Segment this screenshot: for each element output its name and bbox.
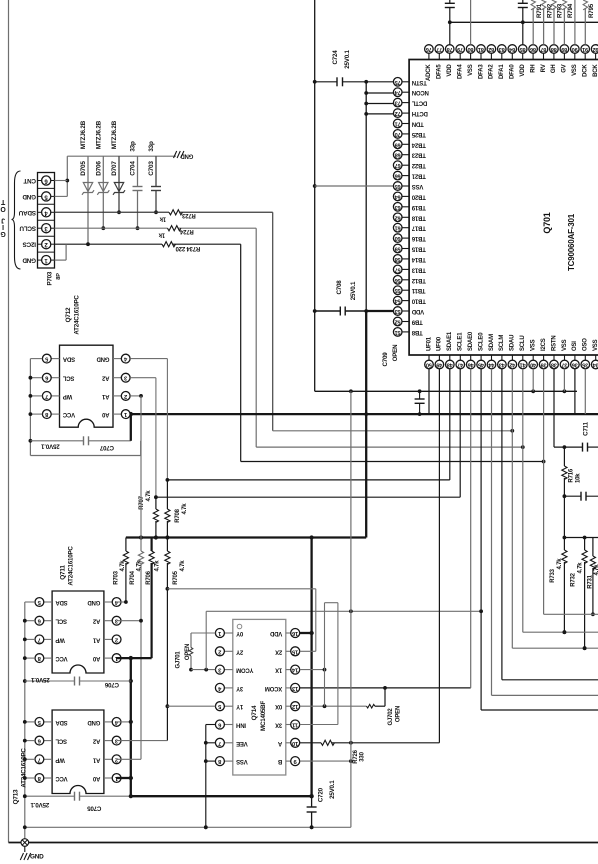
IC Q701 top pin 80 — [466, 45, 475, 60]
svg-text:1Y: 1Y — [236, 703, 243, 709]
wire R726 to UF00 — [332, 741, 440, 745]
pin label SDA — [55, 719, 68, 725]
IC Q701 left pin 71 — [393, 119, 409, 128]
svg-text:C706: C706 — [104, 681, 119, 688]
IC Q713 pin 3 — [104, 736, 121, 745]
pin label TB23 — [411, 152, 426, 158]
wire pin46 vertical — [470, 369, 472, 688]
svg-text:SCL: SCL — [62, 375, 74, 381]
junction VDD bus537 — [154, 535, 158, 539]
wire Q713 A1 — [117, 758, 141, 760]
label R791 — [536, 3, 543, 18]
svg-text:UF01: UF01 — [426, 336, 432, 351]
pin label BCK — [593, 64, 598, 77]
pin label VDD — [411, 308, 424, 314]
IC Q701 left pin 69 — [393, 140, 409, 149]
wire bend pin43 — [502, 679, 598, 681]
label Q701 — [542, 212, 552, 233]
label GND top — [180, 153, 194, 159]
capacitor C720 — [307, 796, 317, 829]
IC Q701 top pin 89 — [560, 45, 569, 60]
label R726 — [353, 749, 359, 763]
label Q711 AT24C1610PC — [68, 546, 75, 586]
svg-text:VCC: VCC — [62, 411, 75, 417]
svg-text:NCON: NCON — [412, 89, 429, 95]
label C711 — [583, 421, 590, 435]
pin label SDA — [55, 599, 68, 605]
junction VDD — [364, 102, 368, 106]
label R724 — [179, 228, 193, 234]
junction CNT — [65, 179, 69, 183]
IC Q701 top pin 84 — [508, 45, 517, 60]
pin label VCC — [55, 655, 68, 661]
svg-text:2: 2 — [124, 393, 127, 399]
svg-text:GND: GND — [96, 356, 110, 362]
svg-text:R724: R724 — [179, 228, 193, 234]
svg-text:86: 86 — [530, 46, 536, 52]
wire VDD pin53 — [366, 310, 394, 312]
junction SCLU-pin41 — [521, 445, 525, 449]
pin label WP — [55, 756, 64, 762]
svg-text:DFA1: DFA1 — [499, 64, 505, 79]
svg-text:SCLU: SCLU — [520, 335, 526, 351]
capacitor C707 — [30, 436, 130, 445]
wire pin to VDD — [366, 92, 394, 94]
wire Q711 A2 — [117, 619, 143, 623]
label C724 25V0.1 — [344, 50, 351, 69]
svg-text:OSO: OSO — [583, 338, 589, 351]
svg-text:330: 330 — [360, 751, 366, 761]
pin label A2 — [101, 375, 109, 381]
wire pin50 vertical — [428, 369, 430, 414]
IC Q712 pin 7 — [42, 392, 59, 401]
svg-text:73: 73 — [395, 100, 401, 106]
svg-text:35: 35 — [582, 362, 588, 368]
junction VDD top A — [448, 20, 452, 24]
wire R716-R733 link — [563, 496, 565, 550]
svg-text:C703: C703 — [148, 161, 155, 176]
svg-text:TB16: TB16 — [411, 235, 426, 241]
wire pin to VDD — [366, 103, 394, 105]
pin label XCOM — [265, 685, 282, 691]
IC Q711 body — [52, 591, 104, 673]
label R723 1k — [159, 216, 166, 222]
wire Q714 pin1 — [191, 632, 215, 634]
label C705 25V0.1 — [30, 801, 49, 808]
svg-text:DFA4: DFA4 — [458, 64, 464, 79]
pin label SCL — [55, 738, 67, 744]
wire YCOM up — [205, 611, 207, 669]
IC Q701 bottom pin 46 — [466, 355, 475, 369]
svg-text:Q714: Q714 — [251, 705, 258, 720]
pin label TB21 — [411, 173, 426, 179]
svg-text:C709: C709 — [382, 352, 389, 367]
capacitor C711 — [583, 443, 588, 452]
pin label A2 — [92, 738, 100, 744]
wire I2CS bus — [241, 461, 544, 463]
svg-text:7: 7 — [218, 740, 221, 746]
junction gnd gray Q714rail — [204, 825, 208, 829]
svg-text:VSS: VSS — [236, 758, 248, 764]
connector pin label GND — [22, 257, 36, 264]
wire pin48 vertical — [449, 369, 451, 480]
svg-text:80: 80 — [468, 46, 474, 52]
junction VSS-pin37 — [563, 389, 567, 393]
IC Q701 top pin 77 — [435, 45, 444, 60]
IC Q711 pin 4 — [104, 598, 121, 607]
label R794 — [567, 3, 574, 18]
IC Q701 left pin 61 — [393, 223, 409, 232]
IC Q714 pin 2 — [215, 647, 232, 656]
svg-text:RV: RV — [541, 64, 547, 72]
label D707 MTZJ6.2B — [111, 120, 118, 149]
wire Q714 pin10 A — [300, 742, 321, 744]
svg-text:12: 12 — [292, 703, 298, 709]
svg-text:TB23: TB23 — [411, 152, 426, 158]
junction C706 — [129, 679, 133, 683]
label C720 25V0.1 — [329, 780, 336, 799]
IC Q701 top pin 86 — [529, 45, 538, 60]
wire pin43 vertical — [501, 369, 503, 680]
svg-text:A2: A2 — [101, 375, 109, 381]
pin label SDAM — [489, 334, 495, 351]
svg-text:58: 58 — [395, 256, 401, 262]
svg-text:36: 36 — [572, 362, 578, 368]
svg-text:R705: R705 — [173, 570, 179, 584]
svg-text:25V0.1: 25V0.1 — [329, 780, 336, 799]
svg-text:SDA: SDA — [55, 719, 68, 725]
pin label GV — [562, 64, 568, 72]
wire bend pin39 — [544, 613, 598, 615]
pin label VSS — [572, 64, 578, 76]
svg-text:90: 90 — [572, 46, 578, 52]
junction VDD bus537 — [165, 535, 169, 539]
pin label TB13 — [411, 266, 426, 272]
label R795 — [588, 3, 595, 18]
label C704 33p — [130, 141, 137, 152]
svg-text:4.7k: 4.7k — [180, 560, 186, 572]
svg-text:16: 16 — [291, 630, 298, 636]
svg-text:A2: A2 — [92, 618, 100, 624]
label C724 — [332, 50, 339, 65]
svg-text:TB11: TB11 — [411, 287, 425, 293]
junction VSS-pin40 — [531, 389, 535, 393]
svg-text:TB15: TB15 — [411, 246, 426, 252]
IC Q701 left pin 66 — [393, 171, 409, 180]
wire pin40 vertical — [532, 369, 534, 392]
wire 0X-3X riser — [325, 603, 338, 725]
svg-text:TB13: TB13 — [411, 266, 426, 272]
svg-text:57: 57 — [395, 266, 401, 272]
page border bottom (GND rail) — [9, 842, 598, 844]
wire I2CS — [55, 243, 241, 245]
svg-text:VSS: VSS — [572, 64, 578, 76]
svg-text:ADCK: ADCK — [426, 64, 432, 81]
svg-text:R731: R731 — [588, 574, 594, 588]
svg-text:10k: 10k — [576, 473, 582, 483]
svg-text:TB12: TB12 — [411, 277, 426, 283]
svg-text:SDAU: SDAU — [18, 209, 36, 216]
IC Q701 left pin 60 — [393, 234, 409, 243]
svg-text:TB8: TB8 — [411, 329, 423, 335]
wire Q714 pin11 3X — [300, 724, 338, 726]
IC Q701 bottom pin 47 — [456, 355, 465, 369]
svg-text:AT24C1610PC: AT24C1610PC — [68, 546, 75, 586]
wire pin to VDD — [366, 113, 394, 115]
junction VDD — [364, 91, 368, 95]
svg-text:1X: 1X — [275, 667, 282, 673]
label R707 — [139, 495, 145, 509]
connector P703 pin 6 — [38, 176, 55, 185]
pin label VCC — [55, 775, 68, 781]
resistor R793 — [552, 0, 556, 45]
svg-text:TB10: TB10 — [411, 298, 426, 304]
wire pin41 vertical — [522, 369, 524, 632]
pin label TB19 — [411, 204, 426, 210]
pin label SCLM — [499, 335, 505, 351]
IC Q701 bottom pin 40 — [529, 355, 538, 369]
svg-text:R707: R707 — [139, 495, 145, 509]
wire rail tap — [23, 656, 35, 660]
svg-text:TSTN: TSTN — [412, 79, 427, 85]
pin label A1 — [92, 756, 100, 762]
pin label DCTL — [411, 100, 427, 106]
pin label RSTN — [551, 335, 557, 351]
pin label TB16 — [411, 235, 426, 241]
svg-text:I2CS: I2CS — [23, 241, 36, 248]
wire VDD Q713 vertical — [130, 658, 132, 796]
svg-text:RH: RH — [530, 65, 536, 73]
label R716 10k — [576, 473, 582, 483]
wire Q712 A2 — [130, 378, 156, 498]
svg-text:59: 59 — [395, 246, 401, 252]
label R732 4.7k — [578, 562, 584, 574]
svg-text:TB21: TB21 — [411, 173, 426, 179]
label R704 4.7k — [137, 560, 143, 572]
IC Q714 pin 11 — [286, 720, 300, 729]
pin label DCTH — [412, 110, 428, 116]
pin label A1 — [92, 636, 100, 642]
svg-text:DFA2: DFA2 — [489, 64, 495, 79]
svg-text:70: 70 — [395, 131, 401, 137]
pin label 2X — [275, 648, 282, 654]
svg-text:DFA0: DFA0 — [510, 64, 516, 79]
svg-text:SCL: SCL — [55, 738, 67, 744]
IC Q701 bottom pin 38 — [550, 355, 559, 369]
svg-text:XCOM: XCOM — [265, 685, 282, 691]
svg-text:2: 2 — [218, 648, 221, 654]
svg-text:GJ701: GJ701 — [176, 651, 182, 669]
svg-text:71: 71 — [395, 121, 401, 127]
pin label TB9 — [411, 319, 423, 325]
label R703 4.7k — [120, 560, 126, 572]
wire rail tap Q713 — [23, 757, 35, 761]
svg-text:4.7k: 4.7k — [182, 503, 188, 515]
wire VDD bus 537 — [126, 536, 366, 538]
svg-text:A0: A0 — [92, 775, 100, 781]
svg-text:3Y: 3Y — [236, 685, 243, 691]
svg-text:WP: WP — [63, 393, 72, 399]
IC Q714 pin 13 — [286, 683, 300, 692]
svg-text:39: 39 — [541, 362, 547, 368]
capacitor C709 (open) — [415, 391, 425, 416]
svg-text:72: 72 — [395, 110, 401, 116]
svg-text:GJ702: GJ702 — [388, 708, 394, 726]
label D707 — [111, 161, 118, 176]
IC Q701 left pin 70 — [393, 130, 409, 139]
svg-text:R706: R706 — [146, 570, 152, 584]
junction rail gnd — [23, 825, 27, 829]
svg-text:OSI: OSI — [572, 341, 578, 351]
wire VSS pin80 up — [470, 0, 472, 45]
label C720 — [317, 787, 324, 802]
wire rail tap — [23, 619, 35, 623]
pin label UF01 — [426, 336, 432, 351]
IC Q711 pin 8 — [35, 654, 52, 663]
IC Q701 left pin 64 — [393, 192, 409, 201]
resistor R795 — [583, 0, 587, 45]
pin label 1Y — [236, 703, 243, 709]
connector P703 pin 1 — [38, 256, 55, 265]
wire Q714 pin16 VDD — [300, 632, 312, 634]
svg-text:MTZJ6.2B: MTZJ6.2B — [80, 120, 87, 149]
pin label SDAU — [510, 335, 516, 351]
IC Q711 pin 3 — [104, 616, 121, 625]
label GJ701 OPEN — [185, 644, 191, 660]
IC Q701 top pin 76 — [425, 45, 434, 60]
svg-text:VSS: VSS — [593, 339, 598, 351]
svg-text:77: 77 — [436, 46, 442, 52]
svg-text:60: 60 — [395, 235, 401, 241]
pin label TB18 — [411, 214, 426, 220]
capacitor C705 — [23, 792, 131, 801]
wire pin35 vertical — [584, 369, 586, 414]
svg-text:VDD: VDD — [411, 308, 424, 314]
jumper GJ702 (open) — [367, 688, 386, 708]
svg-text:OPEN: OPEN — [185, 644, 191, 660]
wire x351 vertical — [350, 391, 352, 827]
connector P703 pin 3 — [38, 224, 55, 233]
IC Q712 pin 4 — [113, 354, 130, 363]
label C704 — [130, 161, 137, 176]
svg-text:YCOM: YCOM — [236, 667, 253, 673]
junction VSS — [313, 309, 317, 313]
svg-text:A0: A0 — [92, 655, 100, 661]
IC Q713 pin 7 — [35, 755, 52, 764]
svg-text:R733: R733 — [550, 568, 556, 582]
pin label INH — [236, 722, 246, 728]
svg-text:25V0.1: 25V0.1 — [31, 676, 50, 683]
svg-text:42: 42 — [509, 362, 515, 368]
svg-text:33p: 33p — [148, 141, 155, 152]
IC Q701 left pin 74 — [393, 88, 409, 97]
svg-text:C720: C720 — [317, 787, 324, 802]
IC Q701 bottom pin 43 — [498, 355, 507, 369]
svg-text:A1: A1 — [92, 636, 100, 642]
svg-text:SCLE1: SCLE1 — [458, 332, 464, 351]
pin label B — [277, 758, 282, 764]
svg-text:TB9: TB9 — [411, 319, 423, 325]
jumper GJ701 (open) — [189, 633, 193, 671]
wire Q712 GND — [130, 359, 167, 480]
svg-text:R708: R708 — [175, 508, 181, 522]
svg-text:SDA: SDA — [55, 599, 68, 605]
label R708 4.7k — [182, 503, 188, 515]
IC Q711 pin 7 — [35, 635, 52, 644]
pin label ADCK — [426, 64, 432, 81]
IC Q701 bottom pin 42 — [508, 355, 517, 369]
junction VSS — [313, 80, 317, 84]
svg-text:46: 46 — [468, 362, 474, 368]
svg-text:91: 91 — [582, 46, 588, 52]
svg-text:GND: GND — [87, 719, 101, 725]
IC Q701 top pin 87 — [539, 45, 548, 60]
junction VSS — [313, 184, 317, 188]
wire bend pin44 — [492, 694, 598, 696]
pin label TB14 — [411, 256, 426, 262]
pin label TB11 — [411, 287, 425, 293]
svg-text:R734 220: R734 220 — [175, 245, 200, 251]
svg-text:C704: C704 — [130, 161, 137, 176]
wire VSS pin65 — [315, 185, 394, 187]
resistor R704 — [138, 396, 143, 759]
label R705 — [173, 570, 179, 584]
IC Q701 bottom pin 35 — [581, 355, 590, 369]
pin label DFA0 — [510, 64, 516, 79]
svg-text:GND: GND — [22, 193, 36, 200]
connector designator P703 — [47, 271, 54, 285]
IC Q713 pin 6 — [35, 736, 52, 745]
resistor R724 — [168, 226, 181, 231]
IC Q714 pin 12 — [286, 702, 300, 711]
svg-text:I: I — [2, 223, 4, 230]
IC Q701 bottom pin 39 — [539, 355, 548, 369]
svg-text:C711: C711 — [583, 421, 590, 435]
junction VDD bottom corner — [129, 794, 133, 798]
resistor R792 — [541, 0, 545, 45]
svg-text:66: 66 — [395, 173, 401, 179]
pin label TB20 — [411, 193, 426, 199]
IC Q712 pin 1 — [113, 410, 130, 419]
pin label VSS — [236, 758, 248, 764]
svg-text:2X: 2X — [275, 648, 282, 654]
svg-text:SCL: SCL — [55, 618, 67, 624]
resistor R705 — [165, 538, 170, 741]
junction rail C706 — [23, 679, 27, 683]
pin label 1X — [275, 667, 282, 673]
label Q712 AT24C1610PC — [74, 295, 81, 335]
label C707 — [99, 444, 114, 451]
IC Q701 bottom pin 34 — [591, 355, 598, 369]
IC Q712 pin 5 — [42, 354, 59, 363]
svg-text:OPEN: OPEN — [396, 706, 402, 722]
pin label A2 — [92, 618, 100, 624]
svg-text:1k: 1k — [158, 232, 165, 238]
wire Q713 GND — [117, 720, 133, 724]
svg-text:TB20: TB20 — [411, 193, 426, 199]
svg-text:R703: R703 — [114, 570, 120, 584]
wire VDD rail upper — [365, 82, 367, 311]
svg-text:SCLM: SCLM — [499, 335, 505, 351]
IC Q701 left pin 63 — [393, 203, 409, 212]
IC Q701 bottom pin 41 — [519, 355, 528, 369]
svg-text:41: 41 — [520, 362, 526, 368]
label R731 4.7k — [594, 564, 598, 576]
pin label 3Y — [236, 685, 243, 691]
svg-text:SDAM: SDAM — [489, 334, 495, 351]
wire bend pin45 — [481, 709, 598, 711]
pin label I2CS — [541, 338, 547, 351]
